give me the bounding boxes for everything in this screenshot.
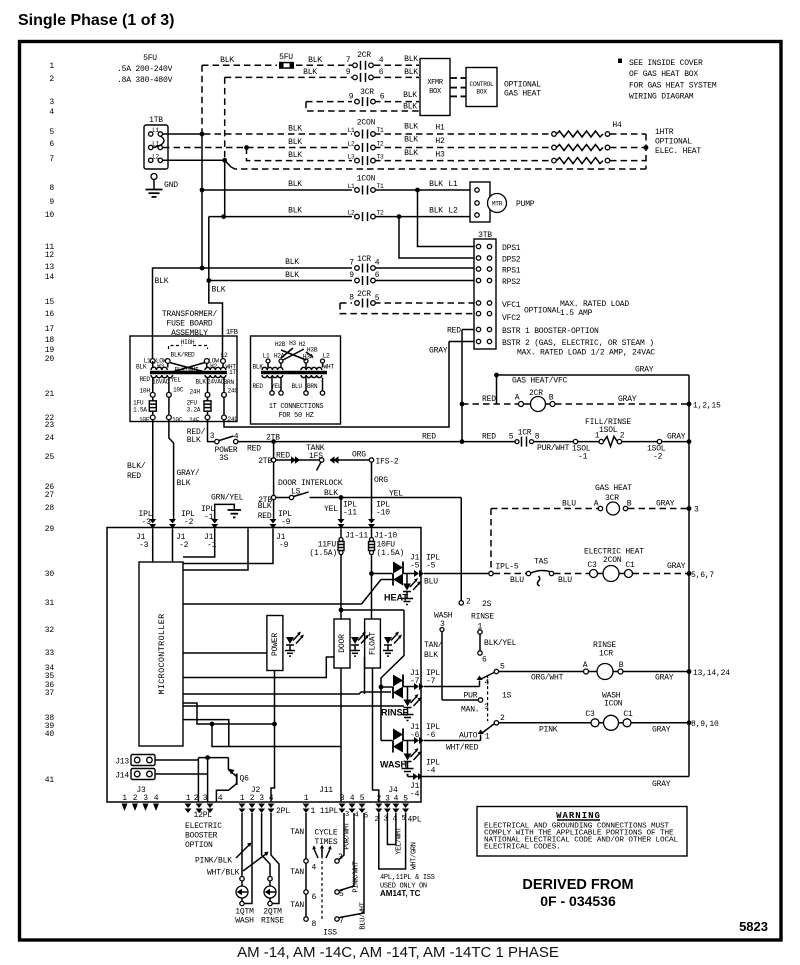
svg-text:RED: RED	[247, 445, 261, 454]
svg-text:3: 3	[340, 794, 345, 803]
svg-text:XFMR: XFMR	[427, 79, 444, 87]
svg-text:GRN/YEL: GRN/YEL	[211, 494, 244, 503]
svg-text:17: 17	[45, 325, 55, 334]
microcontroller box	[139, 562, 183, 746]
svg-text:GRAY: GRAY	[635, 366, 654, 375]
svg-text:RED: RED	[258, 512, 272, 521]
svg-text:ICON: ICON	[604, 700, 623, 709]
svg-text:2: 2	[375, 816, 379, 824]
wire DOOR INTERLOCK LS row	[258, 479, 461, 505]
svg-text:1,2,15: 1,2,15	[693, 402, 721, 411]
svg-text:WHT/BLK: WHT/BLK	[207, 869, 240, 878]
wire J1-1 into MC	[183, 529, 215, 558]
HIGH tap bracket	[169, 339, 208, 349]
fuse 11FU	[309, 529, 344, 620]
svg-text:6: 6	[49, 140, 54, 149]
wires 10C / 24C through	[168, 397, 170, 415]
GRN/YEL earth at bus	[211, 494, 244, 520]
svg-text:-4: -4	[410, 790, 420, 799]
svg-text:3: 3	[259, 794, 264, 803]
svg-text:B: B	[627, 500, 632, 509]
svg-text:PUR/WHT: PUR/WHT	[344, 822, 352, 849]
svg-text:RED: RED	[447, 327, 461, 336]
label PINK/BLK with pointer	[195, 843, 252, 866]
svg-text:BLU/WHT: BLU/WHT	[360, 902, 368, 929]
svg-text:OF GAS HEAT BOX: OF GAS HEAT BOX	[629, 70, 698, 79]
wire GRAY top bus feed	[494, 366, 689, 405]
svg-text:27: 27	[45, 491, 55, 500]
svg-text:2PL: 2PL	[276, 807, 290, 816]
svg-text:-7: -7	[426, 677, 436, 686]
svg-text:HIGH: HIGH	[181, 339, 195, 346]
svg-text:C3: C3	[585, 710, 595, 719]
svg-text:3: 3	[694, 506, 699, 515]
timer contacts 8-7	[304, 917, 344, 929]
svg-text:5FU: 5FU	[143, 54, 157, 63]
svg-text:TIMES: TIMES	[314, 838, 337, 847]
svg-text:DPS1: DPS1	[502, 244, 521, 253]
wire MC to RINSE triac	[183, 692, 391, 694]
wire MC to HEAT via diagonal	[183, 580, 393, 605]
triac RINSE	[393, 669, 480, 699]
svg-text:WHT/GRN: WHT/GRN	[411, 842, 419, 869]
contact 2CON L3-T3	[355, 156, 376, 165]
svg-text:CYCLE: CYCLE	[314, 829, 337, 838]
svg-text:CONTROL: CONTROL	[470, 81, 494, 88]
wire MC to POWER	[183, 652, 267, 654]
svg-text:ORG: ORG	[352, 451, 366, 460]
svg-text:BLK: BLK	[404, 149, 418, 158]
svg-text:BLU: BLU	[562, 500, 576, 509]
wire from top edge x248 to MC	[183, 529, 248, 571]
dashed riser row1 to 1TB L1	[201, 65, 203, 132]
label optional gas heat	[504, 81, 541, 99]
svg-text:3: 3	[143, 794, 148, 803]
LED HEAT indicator	[384, 574, 421, 605]
svg-text:4: 4	[350, 794, 355, 803]
svg-text:L2: L2	[348, 141, 355, 148]
svg-text:BLK/RED: BLK/RED	[171, 352, 195, 359]
svg-text:-2: -2	[179, 541, 189, 550]
selector contacts 4/5 row 36	[477, 663, 506, 688]
riser row10 to 3TB DPS2	[399, 217, 474, 258]
svg-text:RINSE: RINSE	[471, 613, 494, 622]
svg-text:-11: -11	[343, 509, 357, 518]
feed line J11-1	[290, 813, 306, 919]
svg-text:BRN: BRN	[307, 383, 318, 390]
svg-text:9: 9	[49, 198, 54, 207]
svg-text:4: 4	[312, 864, 317, 873]
svg-text:YEL: YEL	[171, 377, 182, 384]
svg-text:-1: -1	[204, 513, 214, 522]
svg-text:BLK: BLK	[288, 180, 302, 189]
contact 1CR 5-8	[509, 429, 573, 454]
bus input arrows (J1 connector top edge)	[149, 519, 375, 529]
svg-text:BLU: BLU	[510, 576, 524, 585]
svg-text:15: 15	[45, 298, 55, 307]
LED POWER	[285, 632, 304, 657]
svg-text:5FU: 5FU	[279, 53, 293, 62]
motor MTR circle	[488, 194, 535, 213]
svg-text:T1: T1	[377, 127, 384, 134]
svg-text:3CR: 3CR	[360, 88, 374, 97]
svg-text:4: 4	[394, 795, 399, 804]
svg-text:IFS-2: IFS-2	[376, 458, 399, 467]
transformer 1T secondary stubs	[153, 377, 224, 392]
connector J4	[375, 786, 422, 825]
svg-text:0F - 034536: 0F - 034536	[540, 893, 616, 909]
timer contacts 6-5	[304, 890, 344, 902]
transformer 1T primary labels	[136, 352, 236, 377]
svg-text:GRAY: GRAY	[656, 500, 675, 509]
board outline	[107, 528, 421, 803]
wires XFMR to CONTROL BOX	[450, 78, 466, 96]
switch 3S POWER	[210, 432, 239, 463]
svg-text:31: 31	[45, 599, 55, 608]
note 4PL,11PL & ISS	[380, 874, 435, 898]
svg-text:GRAY: GRAY	[652, 780, 671, 789]
svg-text:13: 13	[45, 263, 55, 272]
svg-text:BSTR 1 BOOSTER-OPTION: BSTR 1 BOOSTER-OPTION	[502, 327, 599, 336]
svg-text:BLK: BLK	[429, 207, 443, 216]
svg-text:RINSE: RINSE	[381, 708, 409, 718]
3TB labels	[502, 244, 655, 358]
svg-text:GRAY: GRAY	[667, 433, 686, 442]
svg-text:WIRING DIAGRAM: WIRING DIAGRAM	[629, 93, 694, 102]
junction node (224.7,160.3)	[222, 158, 227, 163]
riser row8 to 3TB DPS1	[418, 190, 475, 247]
svg-text:24H: 24H	[190, 389, 201, 396]
svg-text:PUR/WHT: PUR/WHT	[537, 444, 570, 453]
svg-text:5823: 5823	[739, 919, 768, 934]
svg-text:2: 2	[376, 795, 381, 804]
svg-text:FUSE BOARD: FUSE BOARD	[166, 320, 212, 329]
svg-text:2CON: 2CON	[357, 119, 376, 128]
svg-text:BLK: BLK	[288, 151, 302, 160]
svg-text:24VAC: 24VAC	[207, 379, 225, 386]
svg-text:12PL: 12PL	[194, 811, 213, 820]
svg-text:9: 9	[346, 68, 351, 77]
svg-text:BLK: BLK	[285, 271, 299, 280]
svg-text:37: 37	[45, 689, 55, 698]
svg-text:BLK: BLK	[403, 103, 417, 112]
svg-text:13,14,24: 13,14,24	[693, 669, 730, 678]
label 1HTR optional elec heat	[655, 128, 701, 156]
label WHT/BLK with pointer	[207, 852, 269, 878]
svg-text:(1.5A): (1.5A)	[309, 549, 337, 558]
svg-text:3: 3	[385, 795, 390, 804]
svg-text:VFC1: VFC1	[502, 301, 521, 310]
svg-text:WASH: WASH	[235, 917, 254, 926]
svg-text:BLK: BLK	[288, 207, 302, 216]
contact 1CON L1-T1	[355, 186, 376, 195]
svg-text:SEE INSIDE COVER: SEE INSIDE COVER	[629, 59, 703, 68]
wire TANK 1FS row	[258, 444, 399, 471]
svg-text:-4: -4	[426, 767, 436, 776]
wire J1-2 into MC	[172, 529, 174, 563]
svg-text:2CR: 2CR	[357, 290, 371, 299]
svg-text:BLU: BLU	[424, 578, 438, 587]
svg-text:GRAY: GRAY	[667, 562, 686, 571]
svg-text:TAN/: TAN/	[424, 641, 443, 650]
svg-text:T2: T2	[377, 141, 384, 148]
svg-text:-9: -9	[279, 541, 289, 550]
contact 1CON L2-T2	[355, 212, 376, 221]
svg-text:BLK: BLK	[285, 258, 299, 267]
wire BSTR2 GRAY	[429, 342, 474, 356]
svg-text:L1: L1	[448, 180, 458, 189]
LED FLOAT	[383, 632, 402, 657]
junction node (202,134)	[200, 132, 205, 137]
svg-text:BLK/: BLK/	[127, 462, 146, 471]
svg-text:OPTIONAL: OPTIONAL	[504, 81, 541, 90]
svg-text:DOOR INTERLOCK: DOOR INTERLOCK	[278, 479, 343, 488]
svg-text:WHT/RED: WHT/RED	[446, 744, 479, 753]
pump motor box	[470, 182, 490, 222]
svg-text:5: 5	[401, 815, 405, 823]
svg-text:RED: RED	[276, 452, 290, 461]
svg-text:12: 12	[45, 251, 55, 260]
svg-text:9: 9	[349, 93, 354, 102]
svg-text:1CON: 1CON	[357, 175, 376, 184]
contact 3CR 9-6	[349, 88, 385, 106]
svg-text:GAS HEAT: GAS HEAT	[595, 484, 632, 493]
svg-text:1: 1	[485, 733, 490, 742]
svg-text:BLK: BLK	[404, 136, 418, 145]
svg-text:4PL,11PL & ISS: 4PL,11PL & ISS	[380, 874, 435, 882]
svg-text:MAX. RATED LOAD 1/2 AMP, 24VAC: MAX. RATED LOAD 1/2 AMP, 24VAC	[517, 349, 655, 358]
svg-text:WASH: WASH	[380, 760, 407, 770]
wires J2 to motors	[242, 813, 279, 904]
svg-text:BLK: BLK	[404, 68, 418, 77]
wire 1TB L2 solid	[163, 159, 225, 161]
heater resistor H2	[552, 145, 649, 151]
svg-text:41: 41	[45, 776, 55, 785]
wire GRAY/BLK 10C to J1-2	[169, 420, 200, 519]
wire MC to DOOR	[183, 657, 334, 678]
wrap dashed line y=169	[231, 167, 646, 169]
J1 pin labels below bus	[136, 532, 397, 551]
svg-text:24: 24	[45, 434, 55, 443]
svg-text:-7: -7	[410, 677, 420, 686]
svg-text:2: 2	[49, 75, 54, 84]
svg-text:AUTO: AUTO	[459, 732, 478, 741]
svg-text:-2: -2	[184, 518, 194, 527]
svg-text:3: 3	[484, 703, 489, 712]
svg-text:ORG/WHT: ORG/WHT	[531, 674, 564, 683]
terminal block 3TB	[474, 231, 496, 349]
svg-text:1 11PL: 1 11PL	[311, 807, 339, 816]
svg-text:H3: H3	[289, 340, 296, 347]
wire row 13 (RPS1 with 1CR 7-4)	[200, 255, 474, 270]
transistor Q6	[198, 755, 249, 802]
svg-text:1: 1	[240, 794, 245, 803]
transformer 1T secondary labels	[140, 376, 235, 386]
svg-text:ELECTRIC: ELECTRIC	[185, 822, 222, 831]
svg-text:RINSE: RINSE	[261, 917, 284, 926]
svg-text:3.2A: 3.2A	[187, 407, 201, 414]
svg-text:TAN: TAN	[290, 868, 304, 877]
svg-text:16: 16	[45, 310, 55, 319]
svg-text:BOOSTER: BOOSTER	[185, 832, 218, 841]
svg-text:C1: C1	[625, 561, 635, 570]
svg-text:5: 5	[49, 128, 54, 137]
note: see inside cover	[618, 59, 717, 102]
connector J2	[239, 786, 291, 816]
svg-text:RPS1: RPS1	[502, 267, 521, 276]
svg-text:7: 7	[346, 56, 351, 65]
relay row GAS HEAT/VFC 2CR coil	[460, 377, 721, 412]
svg-text:ORG: ORG	[374, 476, 388, 485]
svg-text:8: 8	[49, 184, 54, 193]
wires J11 pins 3,4,5 to timer	[339, 813, 368, 930]
svg-text:33: 33	[45, 649, 55, 658]
timer contacts 4-3	[304, 853, 343, 873]
svg-text:-6: -6	[410, 731, 420, 740]
svg-text:J1-11: J1-11	[345, 532, 368, 541]
svg-text:H3: H3	[157, 363, 164, 370]
svg-text:BLK: BLK	[220, 56, 234, 65]
bottom terminals 10F 10C 24F 24C	[139, 415, 238, 424]
svg-text:TRANSFORMER/: TRANSFORMER/	[162, 310, 218, 319]
svg-text:L1: L1	[348, 127, 355, 134]
svg-text:GRAY/: GRAY/	[177, 469, 200, 478]
svg-text:5: 5	[360, 794, 365, 803]
DOOR column down to J11	[340, 668, 342, 802]
svg-text:GAS HEAT: GAS HEAT	[504, 90, 541, 99]
dashed drop L2 to wrap line	[225, 160, 231, 167]
LED WASH indicator	[380, 741, 422, 775]
svg-text:6: 6	[379, 68, 384, 77]
FLOAT box	[365, 619, 381, 668]
svg-text:8: 8	[535, 433, 540, 442]
svg-text:1TB: 1TB	[149, 116, 163, 125]
svg-text:10C: 10C	[172, 417, 183, 424]
svg-text:.5A 200-240V: .5A 200-240V	[117, 65, 173, 74]
triac HEAT	[393, 562, 403, 574]
svg-text:BLK: BLK	[288, 138, 302, 147]
svg-text:H2: H2	[299, 341, 306, 348]
svg-text:OPTION: OPTION	[185, 841, 213, 850]
svg-text:BRN: BRN	[224, 379, 235, 386]
svg-text:BLK: BLK	[308, 56, 322, 65]
svg-text:2: 2	[133, 794, 138, 803]
svg-text:7: 7	[339, 917, 344, 926]
svg-text:PUMP: PUMP	[516, 200, 535, 209]
svg-text:POWER: POWER	[271, 633, 280, 656]
svg-text:MICROCONTROLLER: MICROCONTROLLER	[157, 613, 167, 694]
YEL drop to J1-11	[324, 498, 357, 520]
svg-text:18: 18	[45, 336, 55, 345]
svg-text:ELECTRICAL CODES.: ELECTRICAL CODES.	[484, 844, 561, 852]
svg-text:BLK: BLK	[303, 68, 317, 77]
svg-text:GAS HEAT/VFC: GAS HEAT/VFC	[512, 377, 568, 386]
svg-text:GRAY: GRAY	[429, 347, 448, 356]
svg-text:23: 23	[45, 421, 55, 430]
svg-text:BLK: BLK	[136, 364, 147, 371]
svg-text:21: 21	[45, 390, 55, 399]
svg-text:BLK: BLK	[187, 436, 201, 445]
svg-text:10H: 10H	[140, 388, 151, 395]
svg-text:3S: 3S	[219, 454, 229, 463]
svg-text:2: 2	[194, 794, 199, 803]
svg-text:L1: L1	[348, 183, 355, 190]
svg-text:1: 1	[122, 794, 127, 803]
svg-text:8: 8	[312, 920, 317, 929]
svg-text:4: 4	[154, 794, 159, 803]
svg-text:3: 3	[203, 794, 208, 803]
wire J1-9 into MC	[183, 529, 273, 564]
fuse 2FU 3.2A	[187, 397, 212, 415]
svg-text:Q6: Q6	[240, 775, 250, 784]
svg-text:BLK: BLK	[324, 489, 338, 498]
svg-text:BLK: BLK	[403, 91, 417, 100]
derived from text	[522, 877, 633, 909]
DOOR column branch to RINSE	[339, 608, 404, 741]
svg-text:IPL-5: IPL-5	[496, 563, 519, 572]
dashed bracket elec heat right	[645, 134, 647, 169]
fuse 5FU	[279, 62, 294, 69]
svg-text:RED: RED	[127, 472, 141, 481]
svg-text:B: B	[619, 661, 624, 670]
svg-text:-10: -10	[376, 509, 390, 518]
svg-text:AM -14, AM -14C, AM -14T, AM -: AM -14, AM -14C, AM -14T, AM -14TC 1 PHA…	[237, 944, 559, 961]
svg-text:T3: T3	[377, 154, 384, 161]
svg-text:BOX: BOX	[476, 89, 487, 96]
svg-text:2: 2	[500, 714, 505, 723]
1T 50hz secondary	[253, 378, 325, 421]
svg-text:YEL: YEL	[324, 505, 338, 514]
svg-text:1: 1	[595, 432, 600, 441]
svg-text:1FU: 1FU	[133, 400, 144, 407]
svg-text:-5: -5	[426, 562, 436, 571]
contact 2CR 9-6	[346, 68, 384, 82]
svg-text:RED: RED	[482, 433, 496, 442]
svg-text:BLK: BLK	[424, 651, 438, 660]
svg-text:6: 6	[312, 893, 317, 902]
svg-text:RED: RED	[422, 433, 436, 442]
svg-text:MTR: MTR	[492, 201, 503, 208]
svg-text:BOX: BOX	[429, 88, 442, 96]
svg-text:1T: 1T	[229, 369, 236, 376]
svg-text:H2B: H2B	[275, 341, 286, 348]
svg-text:25: 25	[45, 453, 55, 462]
riser row10 corner down to transformer H2/L2	[209, 217, 223, 359]
transformer 1T windings	[150, 361, 227, 378]
heater resistor H1	[552, 121, 646, 137]
contact 1CR 7-4	[355, 264, 376, 273]
switch 2S RINSE	[459, 598, 517, 665]
wire row 24 (RED to fill/rinse)	[238, 433, 515, 454]
svg-text:J11: J11	[319, 786, 333, 795]
svg-text:4: 4	[355, 812, 359, 820]
2TB column lower labels	[258, 502, 272, 521]
svg-text:2TB: 2TB	[258, 457, 272, 466]
svg-text:H2: H2	[435, 137, 445, 146]
dashed riser row2 to L2 node	[224, 77, 226, 158]
svg-text:TAN: TAN	[290, 901, 304, 910]
WASH 3 lamp wire TAN/BLK	[424, 612, 489, 715]
svg-text:PINK/WHT: PINK/WHT	[353, 861, 361, 892]
svg-text:6: 6	[375, 271, 380, 280]
svg-text:9: 9	[349, 271, 354, 280]
svg-text:BLK: BLK	[288, 125, 302, 134]
svg-text:HEAT: HEAT	[384, 593, 408, 603]
svg-text:2CR: 2CR	[357, 51, 371, 60]
wire y=746.5 link	[212, 724, 341, 747]
FLOAT column down to J4	[373, 668, 379, 802]
svg-text:1HTR: 1HTR	[655, 128, 674, 137]
